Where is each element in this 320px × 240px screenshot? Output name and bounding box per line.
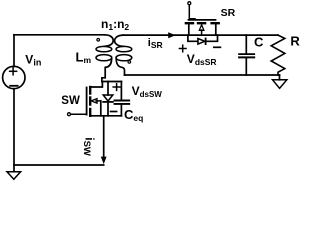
- svg-text:Vin: Vin: [25, 52, 41, 67]
- svg-text:Ceq: Ceq: [124, 107, 143, 123]
- svg-text:R: R: [290, 34, 300, 49]
- svg-text:n1:n2: n1:n2: [101, 17, 129, 32]
- svg-text:VdsSW: VdsSW: [132, 84, 163, 99]
- svg-text:VdsSR: VdsSR: [187, 52, 217, 67]
- svg-text:Lm: Lm: [76, 49, 92, 65]
- svg-text:iSW: iSW: [81, 137, 95, 156]
- svg-text:C: C: [254, 34, 264, 49]
- svg-text:iSR: iSR: [148, 37, 163, 50]
- svg-text:SW: SW: [61, 95, 80, 107]
- svg-text:SR: SR: [221, 7, 236, 19]
